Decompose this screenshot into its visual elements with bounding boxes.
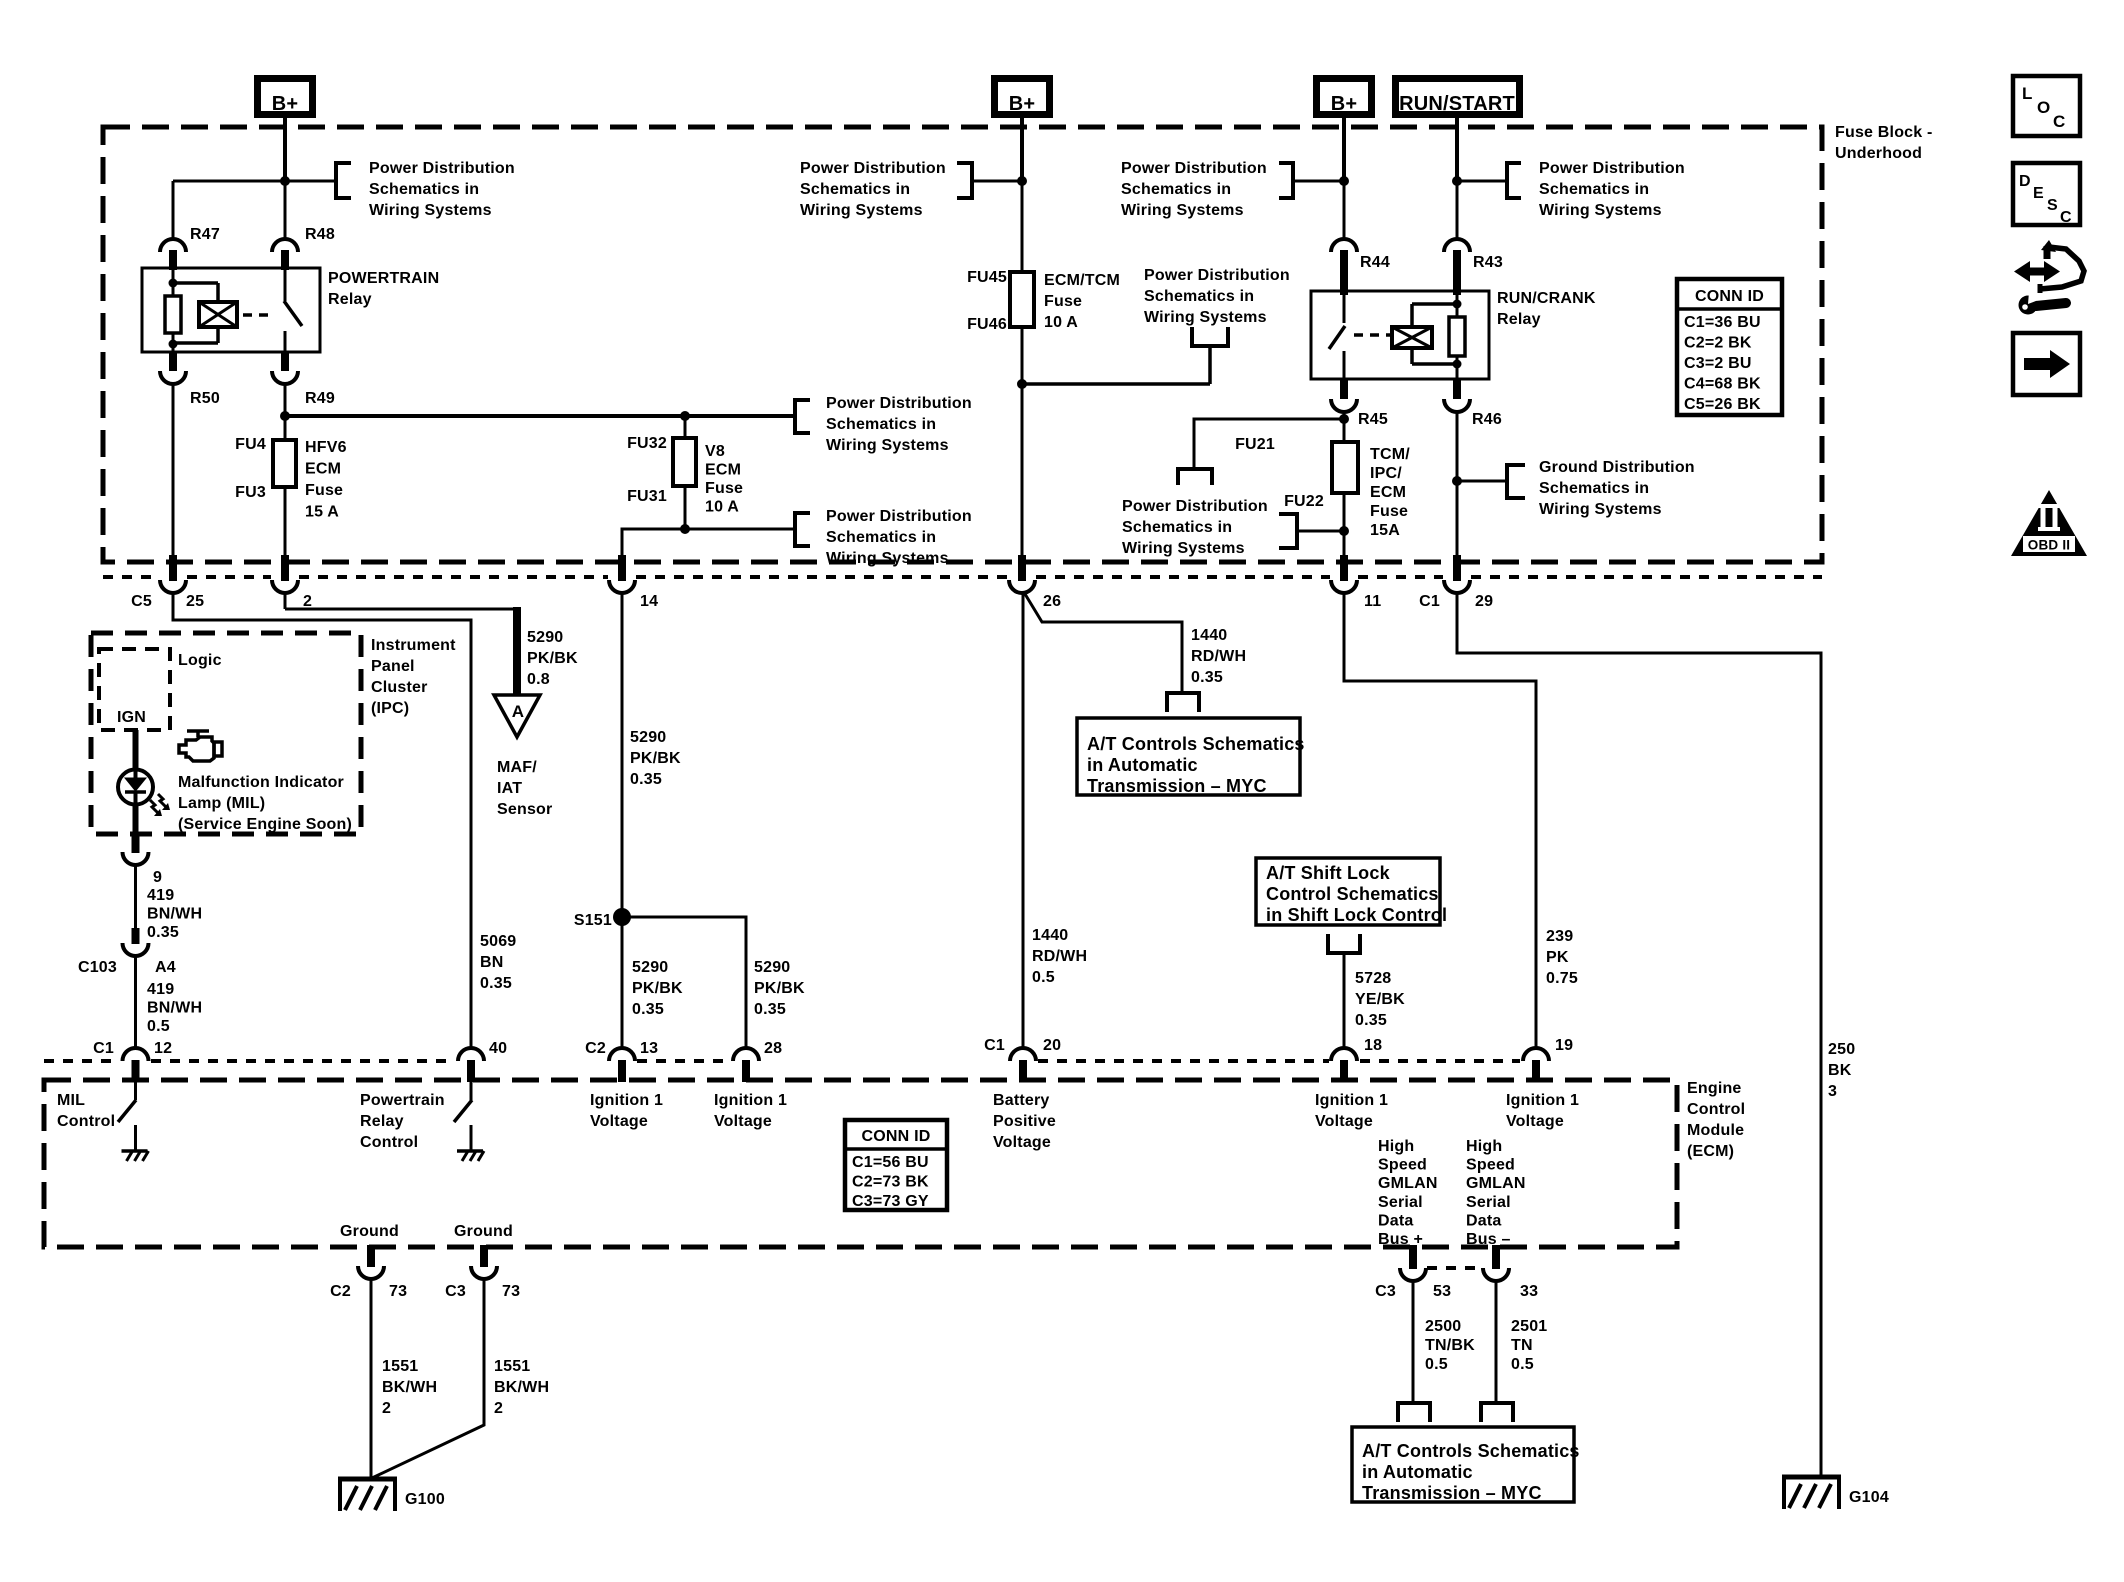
svg-text:Wiring Systems: Wiring Systems xyxy=(1122,540,1245,557)
svg-text:Voltage: Voltage xyxy=(714,1113,772,1130)
svg-text:in Shift Lock Control: in Shift Lock Control xyxy=(1266,905,1447,925)
reference box A/T Shift Lock Control xyxy=(1256,858,1447,925)
MAF/IAT sensor connector triangle A xyxy=(494,695,552,818)
svg-text:15 A: 15 A xyxy=(305,504,339,521)
bracket to A/T Controls reference 1 xyxy=(1167,693,1199,712)
wire pin 11 to ECM pin 19 (239 PK) xyxy=(1344,593,1536,1048)
wire RUN/START down to R43 xyxy=(1456,181,1459,240)
svg-text:5290: 5290 xyxy=(754,959,790,976)
svg-text:Schematics in: Schematics in xyxy=(1539,181,1649,198)
svg-text:RD/WH: RD/WH xyxy=(1032,948,1087,965)
run/crank relay coil resistor xyxy=(1449,291,1465,379)
svg-text:C2=73 BK: C2=73 BK xyxy=(852,1174,929,1191)
svg-text:Fuse Block -: Fuse Block - xyxy=(1835,124,1933,141)
fuse block connector row (dotted) xyxy=(103,575,1822,579)
svg-text:BN/WH: BN/WH xyxy=(147,906,202,923)
svg-text:IGN: IGN xyxy=(117,709,146,726)
svg-text:Serial: Serial xyxy=(1378,1194,1423,1211)
bracket to Ground Distribution xyxy=(1457,465,1525,498)
svg-text:Wiring Systems: Wiring Systems xyxy=(1121,202,1244,219)
svg-text:Schematics in: Schematics in xyxy=(1121,181,1231,198)
connector pin 19 at ECM xyxy=(1523,1037,1573,1082)
svg-text:FU46: FU46 xyxy=(967,316,1007,333)
connector pin C3-73 at ECM bottom xyxy=(445,1245,520,1300)
run/crank relay coil winding xyxy=(1392,304,1457,364)
label Engine Control Module (ECM) xyxy=(1687,1080,1745,1160)
svg-text:C1: C1 xyxy=(93,1040,114,1057)
svg-text:0.35: 0.35 xyxy=(480,975,512,992)
svg-text:9: 9 xyxy=(153,869,162,886)
svg-text:C5: C5 xyxy=(131,593,152,610)
svg-text:Lamp (MIL): Lamp (MIL) xyxy=(178,795,265,812)
svg-text:29: 29 xyxy=(1475,593,1493,610)
svg-text:High: High xyxy=(1466,1138,1502,1155)
svg-text:High: High xyxy=(1378,1138,1414,1155)
icon OBD II triangle xyxy=(2011,490,2087,556)
wire label 419 BN/WH 0.5 xyxy=(147,981,202,1035)
svg-text:Ignition 1: Ignition 1 xyxy=(1506,1092,1579,1109)
svg-text:PK: PK xyxy=(1546,949,1569,966)
connector pin C2-13 at ECM xyxy=(585,1040,658,1082)
wire pin 2 to MAF sensor (5290 PK/BK 0.8) xyxy=(285,593,517,695)
svg-text:Power Distribution: Power Distribution xyxy=(826,395,972,412)
MIL indicator lamp xyxy=(118,770,170,817)
svg-text:Schematics in: Schematics in xyxy=(1539,480,1649,497)
connector pin 2 at fuse block xyxy=(272,555,312,610)
wire R45 junction down to FU21 xyxy=(1343,419,1346,442)
wire C103 to ECM pin 12 (419 BN/WH) xyxy=(134,956,137,1048)
reference text Power Distribution 3 (below bus) xyxy=(826,508,972,567)
svg-text:R46: R46 xyxy=(1472,411,1502,428)
wire label 5290 PK/BK 0.8 xyxy=(527,629,578,688)
svg-text:Schematics in: Schematics in xyxy=(826,529,936,546)
bracket to Power Distribution 8 xyxy=(1178,469,1212,485)
svg-text:C4=68 BK: C4=68 BK xyxy=(1684,376,1761,393)
svg-text:FU45: FU45 xyxy=(967,269,1007,286)
svg-text:Control: Control xyxy=(1687,1101,1745,1118)
svg-text:C3: C3 xyxy=(1375,1283,1396,1300)
svg-text:0.35: 0.35 xyxy=(147,924,179,941)
svg-text:20: 20 xyxy=(1043,1037,1061,1054)
svg-text:419: 419 xyxy=(147,981,174,998)
svg-text:Wiring Systems: Wiring Systems xyxy=(826,437,949,454)
fuse FU21/FU22 TCM/IPC/ECM Fuse 15A xyxy=(1235,436,1410,539)
svg-text:Wiring Systems: Wiring Systems xyxy=(1539,501,1662,518)
svg-text:5728: 5728 xyxy=(1355,970,1391,987)
bracket to Power Distribution 5 xyxy=(1022,327,1228,384)
fuse FU32/FU31 V8 ECM Fuse 10A xyxy=(627,435,743,516)
svg-text:5290: 5290 xyxy=(527,629,563,646)
wire pin 9 to C103 (419 BN/WH) xyxy=(134,865,137,930)
svg-text:G104: G104 xyxy=(1849,1489,1889,1506)
svg-text:D: D xyxy=(2019,173,2031,190)
svg-text:C1: C1 xyxy=(1419,593,1440,610)
svg-text:G100: G100 xyxy=(405,1491,445,1508)
svg-text:2501: 2501 xyxy=(1511,1318,1547,1335)
splice S151 xyxy=(574,908,631,929)
reference text Ground Distribution xyxy=(1539,459,1695,518)
svg-text:Schematics in: Schematics in xyxy=(1122,519,1232,536)
svg-text:0.35: 0.35 xyxy=(630,771,662,788)
svg-text:Voltage: Voltage xyxy=(1506,1113,1564,1130)
svg-text:Wiring Systems: Wiring Systems xyxy=(1144,309,1267,326)
svg-text:CONN ID: CONN ID xyxy=(862,1128,931,1145)
wire bus down to FU32 xyxy=(684,416,687,438)
svg-text:C2: C2 xyxy=(585,1040,606,1057)
svg-text:ECM: ECM xyxy=(705,462,741,479)
wire pin 26 to ECM pin 20 (1440 RD/WH) xyxy=(1022,593,1025,1048)
wire C3-73 to G100 (1551 BK/WH) xyxy=(372,1279,484,1478)
power terminal B+ (right) xyxy=(1317,79,1372,116)
bracket to Power Distribution 1 xyxy=(285,163,351,198)
connector pin 14 at fuse block xyxy=(609,555,658,610)
svg-text:TN: TN xyxy=(1511,1337,1533,1354)
connector pin 18 at ECM xyxy=(1331,1037,1382,1082)
wire FU22 down to pin 11 xyxy=(1343,493,1346,560)
svg-text:Power Distribution: Power Distribution xyxy=(1539,160,1685,177)
svg-text:PK/BK: PK/BK xyxy=(754,980,805,997)
svg-text:Power Distribution: Power Distribution xyxy=(800,160,946,177)
svg-text:C5=26 BK: C5=26 BK xyxy=(1684,396,1761,413)
wire shift lock to ECM pin 18 (5728 YE/BK) xyxy=(1343,953,1346,1048)
wire B+ middle junction down to FU45 xyxy=(1021,181,1024,272)
ground G104 xyxy=(1782,1477,1889,1509)
wire FU31 down to junction xyxy=(684,486,687,529)
svg-text:Wiring Systems: Wiring Systems xyxy=(826,550,949,567)
svg-text:239: 239 xyxy=(1546,928,1573,945)
svg-text:Fuse: Fuse xyxy=(705,480,743,497)
reference text Power Distribution 4 (above FU45) xyxy=(800,160,946,219)
svg-text:73: 73 xyxy=(502,1283,520,1300)
svg-text:L: L xyxy=(2022,84,2033,103)
wire FU3 down to pin 2 xyxy=(284,487,287,560)
svg-text:33: 33 xyxy=(1520,1283,1538,1300)
svg-text:A: A xyxy=(512,702,524,721)
connector terminal R44 xyxy=(1331,239,1390,295)
connector pin C1-12 at ECM xyxy=(93,1040,172,1082)
svg-text:Serial: Serial xyxy=(1466,1194,1511,1211)
connector pin C3-53 at ECM bottom xyxy=(1375,1245,1451,1300)
svg-text:BK/WH: BK/WH xyxy=(382,1379,437,1396)
svg-text:0.35: 0.35 xyxy=(754,1001,786,1018)
wire label 2501 TN 0.5 xyxy=(1511,1318,1547,1373)
power terminal B+ (middle) xyxy=(995,79,1050,116)
wire label 1440 RD/WH 0.5 xyxy=(1032,927,1087,986)
svg-text:GMLAN: GMLAN xyxy=(1378,1175,1438,1192)
svg-text:C3=73 GY: C3=73 GY xyxy=(852,1193,929,1210)
engine control module dashed box xyxy=(44,1080,1677,1247)
wire MIL lamp to IPC pin 9 xyxy=(133,804,139,834)
ECM label Ground (C2-73) xyxy=(340,1223,399,1240)
svg-text:IAT: IAT xyxy=(497,780,522,797)
svg-text:Fuse: Fuse xyxy=(1044,293,1082,310)
svg-text:Underhood: Underhood xyxy=(1835,145,1922,162)
reference text Power Distribution 6 (left of R44) xyxy=(1121,160,1267,219)
svg-text:BK: BK xyxy=(1828,1062,1852,1079)
svg-text:RUN/CRANK: RUN/CRANK xyxy=(1497,290,1596,307)
instrument panel cluster dashed box xyxy=(91,633,361,834)
junction node on R46 wire xyxy=(1452,476,1462,486)
svg-text:0.5: 0.5 xyxy=(1511,1356,1534,1373)
junction node R45 xyxy=(1339,414,1349,424)
svg-text:ECM: ECM xyxy=(305,461,341,478)
icon double arrow with wrench xyxy=(2014,240,2084,315)
svg-text:in Automatic: in Automatic xyxy=(1362,1462,1473,1482)
reference text Power Distribution 2 (mid left) xyxy=(826,395,972,454)
junction node bus at R49 xyxy=(280,411,290,421)
svg-text:PK/BK: PK/BK xyxy=(632,980,683,997)
bracket to A/T Controls reference 2 (left) xyxy=(1398,1403,1430,1422)
bracket to Power Distribution 7 xyxy=(1457,163,1521,198)
svg-text:2: 2 xyxy=(303,593,312,610)
icon DESC box xyxy=(2013,163,2080,226)
bracket to Power Distribution 8 from FU22 xyxy=(1279,514,1344,548)
in-line connector C103 pin A4 xyxy=(78,928,176,976)
powertrain relay switch contact xyxy=(284,268,302,352)
svg-text:OBD II: OBD II xyxy=(2028,538,2070,553)
connector pin 33 at ECM bottom xyxy=(1483,1245,1538,1300)
svg-text:10 A: 10 A xyxy=(1044,314,1078,331)
svg-text:2500: 2500 xyxy=(1425,1318,1461,1335)
svg-text:PK/BK: PK/BK xyxy=(527,650,578,667)
connector pin 11 at fuse block xyxy=(1331,555,1381,610)
svg-text:Speed: Speed xyxy=(1466,1157,1515,1174)
logic dashed box xyxy=(99,649,222,730)
svg-text:TN/BK: TN/BK xyxy=(1425,1337,1475,1354)
svg-text:40: 40 xyxy=(489,1040,507,1057)
CONN ID table for ECM xyxy=(845,1120,947,1210)
junction node below FU46 xyxy=(1017,379,1027,389)
svg-text:1551: 1551 xyxy=(382,1358,418,1375)
svg-text:419: 419 xyxy=(147,887,174,904)
svg-text:5290: 5290 xyxy=(630,729,666,746)
svg-text:Speed: Speed xyxy=(1378,1157,1427,1174)
powertrain relay coil resistor xyxy=(165,268,181,352)
label IGN xyxy=(117,709,146,726)
svg-text:Power Distribution: Power Distribution xyxy=(1122,498,1268,515)
svg-text:Relay: Relay xyxy=(360,1113,404,1130)
wire B+ middle down to FU45 xyxy=(1020,118,1024,181)
svg-text:MIL: MIL xyxy=(57,1092,85,1109)
svg-text:Schematics in: Schematics in xyxy=(369,181,479,198)
svg-text:BN/WH: BN/WH xyxy=(147,1000,202,1017)
connector pin C1-20 at ECM xyxy=(984,1037,1061,1082)
bracket to A/T Controls reference 2 (right) xyxy=(1481,1403,1513,1422)
svg-text:13: 13 xyxy=(640,1040,658,1057)
ECM input label Ignition 1 Voltage (pin 18) xyxy=(1315,1092,1388,1130)
junction node below FU22 xyxy=(1339,526,1349,536)
svg-text:1440: 1440 xyxy=(1032,927,1068,944)
ECM label High Speed GMLAN Serial Data Bus - xyxy=(1466,1138,1526,1248)
ECM output MIL Control switch xyxy=(57,1082,136,1150)
run/crank relay mechanical link (dashed) xyxy=(1354,333,1390,337)
svg-text:FU21: FU21 xyxy=(1235,436,1275,453)
svg-text:Ignition 1: Ignition 1 xyxy=(590,1092,663,1109)
svg-text:GMLAN: GMLAN xyxy=(1466,1175,1526,1192)
connector terminal R48 xyxy=(272,226,335,270)
svg-text:Ignition 1: Ignition 1 xyxy=(1315,1092,1388,1109)
svg-text:C: C xyxy=(2060,209,2072,226)
svg-text:BN: BN xyxy=(480,954,504,971)
ground inside ECM (powertrain relay control) xyxy=(457,1151,484,1161)
svg-text:0.35: 0.35 xyxy=(1191,669,1223,686)
fuse block - underhood dashed box xyxy=(103,127,1822,562)
wire label 239 PK 0.75 xyxy=(1546,928,1578,987)
junction node on B+ middle wire xyxy=(1017,176,1027,186)
svg-text:C3: C3 xyxy=(445,1283,466,1300)
svg-text:(IPC): (IPC) xyxy=(371,700,409,717)
svg-text:A/T Shift Lock: A/T Shift Lock xyxy=(1266,863,1391,883)
wire label 5728 YE/BK 0.35 xyxy=(1355,970,1405,1029)
reference text Power Distribution 8 (below R45 branch) xyxy=(1122,498,1268,557)
engine icon (check engine) xyxy=(179,731,222,761)
svg-text:0.35: 0.35 xyxy=(632,1001,664,1018)
connector terminal R49 xyxy=(272,352,335,407)
svg-text:Logic: Logic xyxy=(178,652,222,669)
svg-text:26: 26 xyxy=(1043,593,1061,610)
label Malfunction Indicator Lamp (MIL) xyxy=(178,774,352,833)
reference box A/T Controls Schematics 2 xyxy=(1352,1427,1580,1503)
reference text Power Distribution 7 (right of RUN/START) xyxy=(1539,160,1685,219)
svg-text:Data: Data xyxy=(1466,1212,1501,1229)
junction node on B+ left wire xyxy=(280,176,290,186)
wire label 2500 TN/BK 0.5 xyxy=(1425,1318,1475,1373)
ECM output Powertrain Relay Control switch xyxy=(360,1082,472,1151)
wire C2-73 to G100 (1551 BK/WH) xyxy=(370,1279,373,1479)
svg-text:Ground Distribution: Ground Distribution xyxy=(1539,459,1695,476)
svg-text:0.5: 0.5 xyxy=(1032,969,1055,986)
svg-text:Power Distribution: Power Distribution xyxy=(1121,160,1267,177)
wire label 1551 BK/WH 2 left xyxy=(382,1358,437,1417)
connector terminal R50 xyxy=(160,352,220,407)
svg-text:Relay: Relay xyxy=(328,291,372,308)
svg-text:Schematics in: Schematics in xyxy=(800,181,910,198)
wire label 5290 PK/BK 0.35 pin28 xyxy=(754,959,805,1018)
connector pin 9 at IPC xyxy=(123,832,163,886)
ground inside ECM (MIL control) xyxy=(122,1151,149,1161)
svg-text:Engine: Engine xyxy=(1687,1080,1742,1097)
connector terminal R43 xyxy=(1444,239,1503,295)
svg-text:Voltage: Voltage xyxy=(993,1134,1051,1151)
svg-text:Ignition 1: Ignition 1 xyxy=(714,1092,787,1109)
svg-text:Transmission – MYC: Transmission – MYC xyxy=(1087,776,1267,796)
reference box A/T Controls Schematics 1 xyxy=(1077,718,1305,796)
svg-text:Cluster: Cluster xyxy=(371,679,428,696)
svg-text:YE/BK: YE/BK xyxy=(1355,991,1405,1008)
svg-text:R48: R48 xyxy=(305,226,335,243)
svg-text:Control Schematics: Control Schematics xyxy=(1266,884,1439,904)
bracket to Power Distribution 6 xyxy=(1279,163,1344,198)
svg-text:Control: Control xyxy=(57,1113,115,1130)
wire label 5290 PK/BK 0.35 upper xyxy=(630,729,681,788)
svg-text:3: 3 xyxy=(1828,1083,1837,1100)
svg-text:FU3: FU3 xyxy=(235,484,266,501)
svg-text:5290: 5290 xyxy=(632,959,668,976)
svg-text:A4: A4 xyxy=(155,959,176,976)
connector pin C5-25 at fuse block xyxy=(131,555,204,610)
relay POWERTRAIN Relay box xyxy=(142,268,439,352)
svg-text:C1=56 BU: C1=56 BU xyxy=(852,1154,929,1171)
svg-text:S: S xyxy=(2047,197,2058,214)
svg-text:C1=36 BU: C1=36 BU xyxy=(1684,314,1761,331)
svg-text:B+: B+ xyxy=(1009,93,1036,115)
connector pin 28 at ECM xyxy=(733,1040,782,1082)
powertrain relay coil winding xyxy=(173,283,237,343)
svg-text:0.8: 0.8 xyxy=(527,671,550,688)
ECM input label Ignition 1 Voltage (pin 28) xyxy=(714,1092,787,1130)
svg-text:Fuse: Fuse xyxy=(305,482,343,499)
svg-text:Panel: Panel xyxy=(371,658,415,675)
wire junction right to bracket xyxy=(685,528,795,531)
ECM label Ground (C3-73) xyxy=(454,1223,513,1240)
ECM input label Ignition 1 Voltage (pin 13) xyxy=(590,1092,663,1130)
run/crank relay switch contact xyxy=(1329,291,1345,379)
ECM connector row (dotted) xyxy=(44,1059,1520,1063)
svg-text:0.75: 0.75 xyxy=(1546,970,1578,987)
connector pin 40 at ECM xyxy=(458,1040,507,1082)
power terminal RUN/START xyxy=(1396,79,1520,116)
svg-text:R49: R49 xyxy=(305,390,335,407)
wire junction left and down to pin 14 xyxy=(622,529,685,560)
svg-text:Instrument: Instrument xyxy=(371,637,456,654)
svg-text:11: 11 xyxy=(1364,593,1381,610)
svg-text:C103: C103 xyxy=(78,959,117,976)
ECM label High Speed GMLAN Serial Data Bus + xyxy=(1378,1138,1438,1248)
wire label 5069 BN 0.35 xyxy=(480,933,516,992)
wire branch pin 26 to A/T controls (1440 RD/WH) xyxy=(1025,594,1182,692)
svg-text:R44: R44 xyxy=(1360,254,1390,271)
svg-text:FU31: FU31 xyxy=(627,488,667,505)
svg-text:RUN/START: RUN/START xyxy=(1399,93,1515,115)
wire label 419 BN/WH 0.35 xyxy=(147,887,202,941)
svg-text:C: C xyxy=(2053,112,2065,131)
wire R50 down to pin 25 xyxy=(172,384,175,560)
svg-text:2: 2 xyxy=(494,1400,503,1417)
svg-text:B+: B+ xyxy=(272,93,299,115)
svg-text:IPC/: IPC/ xyxy=(1370,465,1402,482)
svg-text:E: E xyxy=(2033,185,2044,202)
svg-text:S151: S151 xyxy=(574,912,612,929)
svg-text:Relay: Relay xyxy=(1497,311,1541,328)
wire R45 junction left to bracket xyxy=(1194,419,1344,468)
svg-text:Module: Module xyxy=(1687,1122,1744,1139)
wire horizontal bus R49 to FU32 and bracket xyxy=(285,414,795,418)
svg-text:POWERTRAIN: POWERTRAIN xyxy=(328,270,439,287)
connector terminal R45 xyxy=(1331,379,1388,428)
svg-text:15A: 15A xyxy=(1370,522,1400,539)
wire FU46 down to pin 26 xyxy=(1021,327,1024,560)
powertrain relay mechanical link (dashed) xyxy=(243,313,274,317)
svg-text:MAF/: MAF/ xyxy=(497,759,537,776)
svg-text:Data: Data xyxy=(1378,1212,1413,1229)
wire label 5290 PK/BK 0.35 pin13 xyxy=(632,959,683,1018)
svg-text:C2: C2 xyxy=(330,1283,351,1300)
power terminal B+ (left) xyxy=(258,79,313,116)
svg-text:TCM/: TCM/ xyxy=(1370,446,1410,463)
connector pin C2-73 at ECM bottom xyxy=(330,1245,407,1300)
svg-text:Schematics in: Schematics in xyxy=(1144,288,1254,305)
svg-text:R47: R47 xyxy=(190,226,220,243)
ECM C3 connector row (dotted) xyxy=(1427,1266,1483,1270)
svg-text:(Service Engine Soon): (Service Engine Soon) xyxy=(178,816,352,833)
reference text Power Distribution 5 (middle) xyxy=(1144,267,1290,326)
svg-text:in Automatic: in Automatic xyxy=(1087,755,1198,775)
svg-text:FU22: FU22 xyxy=(1284,493,1324,510)
wire R49 junction down to FU4 xyxy=(284,416,287,440)
svg-text:FU32: FU32 xyxy=(627,435,667,452)
wire junction to R47 drop xyxy=(173,181,285,240)
wire pin 25 to ECM pin 40 (5069 BN) xyxy=(173,593,471,1048)
